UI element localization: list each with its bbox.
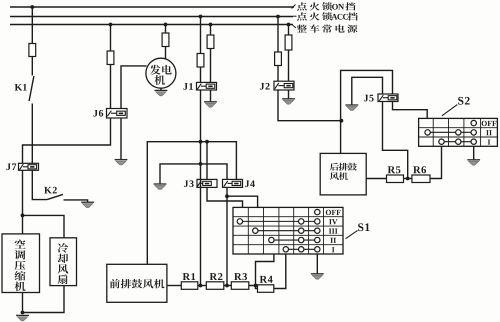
node: R1-R2 junction bbox=[199, 284, 203, 288]
wire J6 right to ground bbox=[120, 118, 122, 160]
wire L3 to fuse bbox=[110, 25, 112, 52]
wire generator to J6 right bbox=[121, 66, 147, 109]
box: A/C compressor bbox=[2, 234, 40, 293]
node: ground rail junction bbox=[21, 311, 25, 315]
node: J3 right on distribution line bbox=[205, 140, 209, 144]
wire K1 to J7 bbox=[31, 104, 33, 164]
wire J1 left long vertical to R1-R2 junction bbox=[200, 90, 202, 286]
label fa dian (generator) bbox=[150, 65, 172, 85]
wire K2 to ground bbox=[64, 200, 88, 202]
resistor R1 bbox=[181, 282, 198, 290]
label J7 bbox=[6, 163, 16, 170]
node: K1 tap on L1 bbox=[30, 5, 34, 9]
label K2 bbox=[44, 187, 57, 194]
resistor R4 bbox=[258, 285, 274, 293]
wire fuse to J2 bbox=[288, 50, 290, 81]
node: J1 feed on distribution line bbox=[199, 140, 203, 144]
wire R5-R6 bbox=[404, 178, 412, 180]
wire R2-R3 bbox=[224, 285, 232, 287]
resistor R3 bbox=[231, 282, 249, 290]
label J3 bbox=[184, 180, 194, 187]
label qian pai gu feng ji bbox=[110, 279, 165, 288]
bus line: ignition ACC (L2) bbox=[10, 16, 293, 18]
box: cooling fan bbox=[50, 238, 77, 286]
wire J7 right to K2 bbox=[32, 170, 47, 199]
wire R3-R4 bbox=[249, 286, 258, 289]
label J4 bbox=[245, 180, 255, 187]
S2 row connection lines and contacts bbox=[425, 120, 477, 144]
wire J5 right to S2 bbox=[393, 102, 428, 119]
label: dian huo suo ACC dang bbox=[297, 12, 358, 20]
wire rear blower to R5 bbox=[366, 178, 386, 180]
wire J2 right to ground bbox=[288, 90, 290, 99]
wire branch to fan bbox=[23, 215, 65, 237]
resistor R5 bbox=[387, 175, 404, 183]
relay J2 bbox=[274, 81, 294, 90]
fuse F-J1L bbox=[197, 54, 204, 68]
node: J1 right tap on L3 bbox=[209, 23, 213, 27]
node: junction on rear blower feed bbox=[340, 119, 344, 123]
node: R3-R4 junction bbox=[254, 284, 258, 288]
relay J5 bbox=[378, 94, 398, 102]
wire R6 to S2 bbox=[430, 146, 442, 178]
label R4 bbox=[260, 276, 273, 283]
label: dian huo suo ON dang bbox=[297, 2, 355, 10]
S2 pointer bbox=[442, 105, 457, 116]
label R2 bbox=[210, 273, 223, 280]
relay J6 bbox=[107, 109, 128, 119]
resistor R6 bbox=[412, 175, 430, 183]
label S2 bbox=[458, 97, 470, 105]
ground under generator bbox=[155, 90, 168, 95]
wire distribution line to front blower and J3/J4 bbox=[147, 142, 236, 265]
ground on left of coil line bbox=[154, 184, 167, 189]
ground after K2 bbox=[81, 202, 94, 207]
node: J1 left tap on L2 bbox=[199, 15, 203, 19]
label R1 bbox=[183, 273, 196, 280]
label hou pai gu / feng ji bbox=[330, 163, 357, 180]
S1 ground stub bbox=[316, 254, 318, 274]
label K1 bbox=[15, 84, 27, 91]
node: J2 left tap on L2 bbox=[276, 15, 280, 19]
S1 position labels OFF IV III II I bbox=[326, 210, 341, 252]
relay J4 bbox=[223, 179, 243, 187]
wire L2 down bbox=[277, 17, 279, 53]
S2 ground stub bbox=[473, 146, 475, 159]
wire J5 coil to ground bbox=[352, 77, 383, 105]
fuse F-J6 bbox=[107, 51, 114, 65]
box: rear blower bbox=[320, 153, 366, 195]
label kong tiao ya suo ji bbox=[14, 240, 25, 292]
wire L3 down bbox=[288, 25, 290, 36]
wire fuse to J6 bbox=[110, 65, 112, 109]
wire fan to ground rail bbox=[23, 286, 65, 313]
wire J1 right to ground bbox=[210, 90, 212, 102]
node: R5-R6 junction bbox=[406, 177, 410, 181]
wire rear blower riser bbox=[341, 70, 393, 153]
wire R4 to S1 col4 bbox=[274, 254, 286, 289]
label J6 bbox=[93, 110, 103, 117]
wire J5 left to R5-R6 junction bbox=[383, 102, 408, 179]
ground under S1 bbox=[311, 274, 324, 279]
wire R3-R4 junction to S1 col3 bbox=[256, 254, 274, 286]
wire J4 left long vertical to R2-R3 junction bbox=[226, 187, 228, 285]
relay J3 bbox=[197, 179, 217, 187]
generator circle bbox=[146, 58, 176, 88]
node: generator tap on L3 bbox=[164, 23, 168, 27]
fuse F-J2L bbox=[275, 52, 282, 66]
wire branch to S1 col2 bbox=[227, 196, 258, 207]
label R3 bbox=[234, 273, 247, 280]
relay J1 bbox=[197, 82, 217, 90]
bus line: constant power (L3) bbox=[10, 24, 293, 26]
ground bottom left bbox=[16, 315, 29, 320]
node: J6 tap on L3 bbox=[109, 23, 113, 27]
wire J3 right drop bbox=[206, 142, 208, 180]
switch block S2 bbox=[419, 118, 498, 146]
fuse F-J2R bbox=[285, 35, 292, 50]
wire R1-R2 bbox=[198, 285, 207, 287]
switch block S1 bbox=[233, 207, 343, 254]
fuse F-K1 bbox=[29, 44, 36, 57]
fuse F-GEN bbox=[162, 33, 169, 47]
node: branch to S1 col2 bbox=[225, 194, 229, 198]
wire J6 left to J7 bbox=[23, 118, 111, 163]
wire generator to ground bbox=[160, 88, 162, 90]
S1 row connection lines and contacts bbox=[237, 209, 320, 252]
label S1 bbox=[358, 223, 369, 231]
box: front blower bbox=[107, 264, 167, 302]
ground under S2 bbox=[467, 160, 480, 165]
wire fuse to J2 bbox=[277, 66, 279, 82]
wire compressor to ground rail bbox=[22, 293, 24, 313]
wire fuse to switch bbox=[31, 57, 33, 76]
S1 pointer bbox=[346, 230, 358, 238]
node: J2 right tap on L3 bbox=[287, 23, 291, 27]
label R6 bbox=[413, 166, 426, 173]
bus line: ignition ON (L1) bbox=[10, 6, 294, 8]
label J5 bbox=[364, 95, 374, 102]
node: branch to fan bbox=[21, 214, 25, 218]
resistor R2 bbox=[206, 282, 224, 290]
wire L2 down bbox=[200, 17, 202, 54]
switch K2 bbox=[47, 194, 63, 199]
wire K1 branch upper bbox=[31, 7, 33, 44]
ground under J6 bbox=[115, 160, 128, 165]
switch K1 bbox=[29, 76, 34, 101]
wire J7 left to compressor bbox=[22, 170, 24, 234]
wire fuse to J1 bbox=[210, 49, 212, 83]
ground under J2 bbox=[282, 99, 295, 104]
label J1 bbox=[183, 83, 193, 90]
label leng que feng shan bbox=[58, 243, 69, 284]
ground under J1 bbox=[204, 102, 217, 107]
S2 position labels OFF II I bbox=[482, 121, 497, 145]
wire J2 left to rear blower feed bbox=[278, 90, 341, 121]
wire L3 to fuse bbox=[165, 25, 167, 34]
node: R2-R3 junction bbox=[225, 284, 229, 288]
fuse F-J1R bbox=[207, 35, 214, 49]
ground J5 coil bbox=[345, 105, 358, 110]
label: zheng che chang dian yuan bbox=[297, 25, 357, 33]
label J2 bbox=[260, 83, 270, 90]
wire fuse to generator bbox=[165, 47, 167, 59]
wire front blower to R1 bbox=[167, 285, 181, 287]
label R5 bbox=[388, 166, 401, 173]
node: junction coil line bbox=[199, 162, 203, 166]
relay J7 bbox=[19, 163, 39, 170]
wire fuse to J1 bbox=[200, 67, 202, 82]
wire ground line to J4 left bbox=[160, 164, 227, 184]
wire L3 down bbox=[210, 25, 212, 36]
wire J3 right to S1 col1 bbox=[207, 187, 243, 207]
